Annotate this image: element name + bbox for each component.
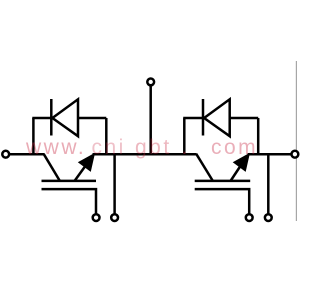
svg-text:www.: www.: [25, 136, 86, 159]
svg-text:com: com: [211, 136, 258, 159]
svg-text:cni: cni: [92, 136, 126, 159]
svg-text:gbt: gbt: [135, 136, 172, 159]
svg-text:.: .: [182, 136, 190, 159]
